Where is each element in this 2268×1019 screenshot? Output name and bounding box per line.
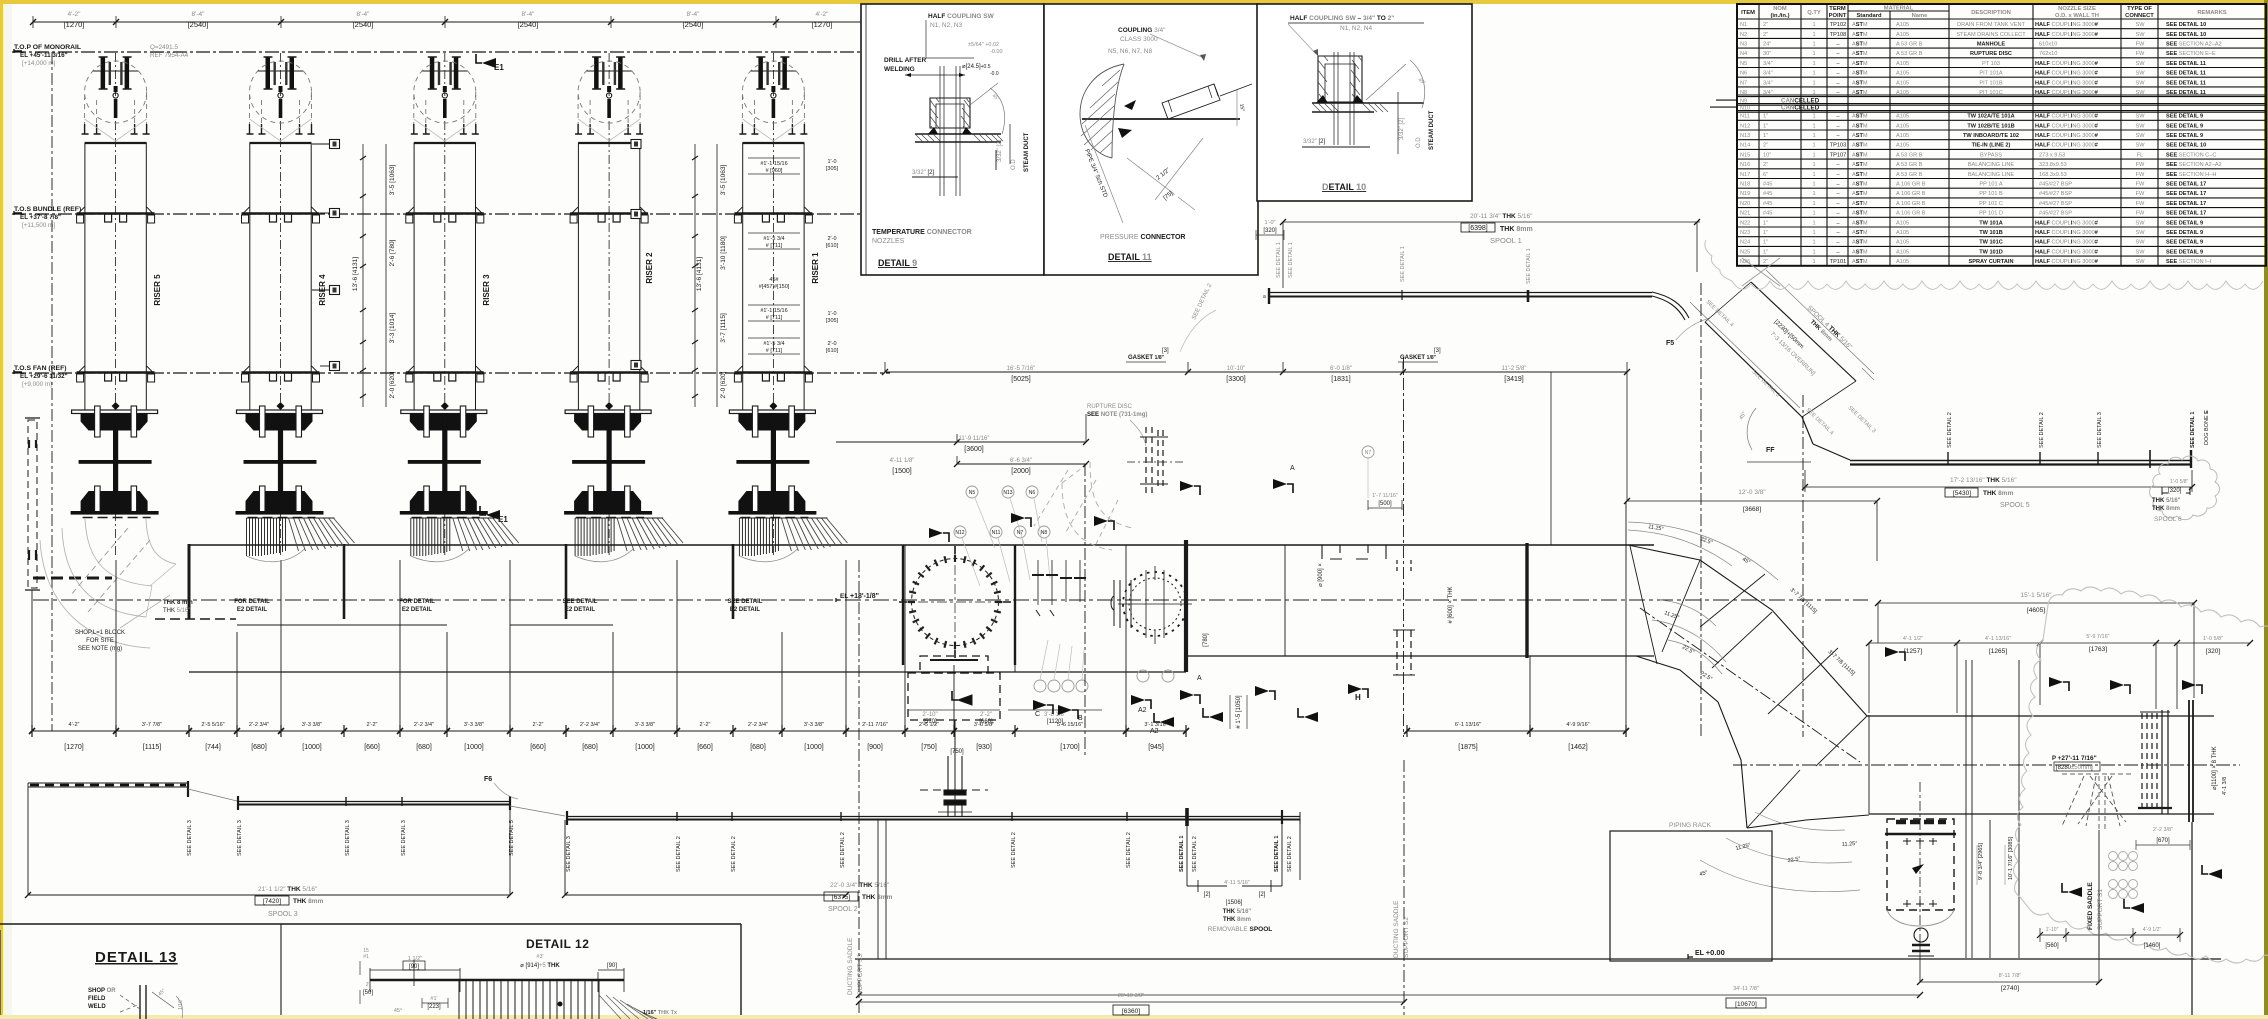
svg-text:2'-0: 2'-0	[828, 341, 837, 347]
svg-text:A 106 GR B: A 106 GR B	[1896, 182, 1926, 188]
svg-text:3/4": 3/4"	[1763, 80, 1773, 86]
svg-text:THK 8mm: THK 8mm	[293, 898, 324, 905]
svg-text:[680]: [680]	[750, 744, 766, 751]
svg-text:SW: SW	[2135, 123, 2145, 129]
detail 12 drawing	[370, 960, 657, 1019]
svg-text:SPOOL 3: SPOOL 3	[268, 911, 298, 918]
svg-text:24": 24"	[1763, 42, 1771, 48]
svg-text:[1462]: [1462]	[1568, 744, 1588, 751]
svg-text:45°: 45°	[394, 1008, 402, 1014]
svg-text:A2: A2	[1138, 707, 1147, 714]
svg-text:3/32" [2]: 3/32" [2]	[1399, 118, 1405, 140]
section labels	[1035, 465, 1361, 735]
svg-text:PIPING RACK: PIPING RACK	[1669, 822, 1712, 829]
centerline vertical 1085	[1084, 464, 1086, 758]
thk labels left	[163, 600, 193, 614]
manhole sub dimensions	[908, 710, 1102, 755]
svg-text:ASTM: ASTM	[1852, 162, 1868, 168]
svg-text:N13: N13	[1740, 133, 1750, 139]
svg-text:O.D. x WALL TH: O.D. x WALL TH	[2055, 13, 2099, 19]
svg-text:SW: SW	[2135, 80, 2145, 86]
svg-text:4'-9 9/16": 4'-9 9/16"	[1566, 722, 1589, 728]
spool 2 bar	[566, 808, 1300, 826]
svg-text:B: B	[1078, 715, 1083, 722]
svg-text:[1000]: [1000]	[302, 744, 322, 751]
saddle bracket on duct	[1322, 545, 1386, 559]
svg-text:#45/#27 BSP: #45/#27 BSP	[2039, 191, 2072, 197]
svg-text:FW: FW	[2136, 191, 2145, 197]
removable spool labels	[1187, 824, 1282, 892]
svg-text:4'-9 1/2": 4'-9 1/2"	[2143, 927, 2162, 933]
chain labels	[64, 744, 1588, 751]
svg-text:N10: N10	[1740, 105, 1750, 111]
dim 670	[2136, 827, 2190, 850]
svg-text:A105: A105	[1896, 61, 1909, 67]
svg-text:[2540]: [2540]	[188, 20, 209, 29]
svg-text:[305]: [305]	[826, 166, 839, 172]
vessel bottom fitting	[1908, 928, 1934, 956]
svg-text:TP101: TP101	[1830, 259, 1846, 265]
svg-text:22'-0 3/4" THK 5/16": 22'-0 3/4" THK 5/16"	[830, 882, 890, 889]
svg-text:PIT 101A: PIT 101A	[1979, 71, 2002, 77]
svg-text:[1265]: [1265]	[1989, 648, 2007, 655]
detail 9 header text	[884, 13, 1003, 77]
svg-text:SEE DETAIL 2: SEE DETAIL 2	[2039, 412, 2045, 448]
svg-text:# [711]: # [711]	[766, 348, 783, 354]
svg-text:SEE DETAIL 2: SEE DETAIL 2	[1947, 412, 1953, 448]
svg-text:1: 1	[1812, 220, 1815, 226]
N7 circle right	[1362, 446, 1374, 498]
duct verticals with chain extensions	[32, 501, 1626, 731]
svg-text:[50]: [50]	[363, 990, 373, 996]
svg-text:SEE DETAIL 10: SEE DETAIL 10	[2166, 143, 2206, 149]
dim 900 vertical	[1318, 563, 1324, 587]
svg-text:# 1'-5 [1050]: # 1'-5 [1050]	[1236, 695, 1242, 729]
svg-text:SW: SW	[2135, 240, 2145, 246]
svg-text:HALF COUPLING SW – 3/4" TO 2": HALF COUPLING SW – 3/4" TO 2"	[1290, 15, 1394, 22]
manhole drop fitting	[938, 756, 972, 816]
svg-text:MATERIAL: MATERIAL	[1884, 6, 1914, 12]
svg-text:SUPPORT S1: SUPPORT S1	[2097, 889, 2104, 930]
svg-text:SEE SECTION C–C: SEE SECTION C–C	[2166, 152, 2216, 158]
svg-text:2'-2 3/4": 2'-2 3/4"	[414, 722, 434, 728]
svg-text:1: 1	[1812, 80, 1815, 86]
svg-text:4'-2": 4'-2"	[69, 722, 80, 728]
svg-text:SEE DETAIL 9: SEE DETAIL 9	[2166, 240, 2203, 246]
svg-text:a: a	[1263, 294, 1266, 300]
svg-text:4'-1 3/8: 4'-1 3/8	[2222, 777, 2228, 795]
chain labels imperial	[69, 722, 1590, 728]
svg-text:# [711]: # [711]	[766, 243, 783, 249]
svg-text:HALF COUPLING 3000#: HALF COUPLING 3000#	[2035, 133, 2099, 139]
svg-text:11'-9 11/16": 11'-9 11/16"	[958, 436, 989, 442]
svg-text:ASTM: ASTM	[1852, 211, 1868, 217]
svg-text:1: 1	[1812, 191, 1815, 197]
svg-text:SEE DETAIL 2: SEE DETAIL 2	[840, 832, 846, 868]
lower duct dim labels	[1903, 634, 2223, 655]
bottom dim 2740	[1917, 930, 2102, 985]
svg-text:[930]: [930]	[976, 744, 992, 751]
svg-text:N7: N7	[1017, 530, 1024, 536]
svg-text:SEE DETAIL 1: SEE DETAIL 1	[2190, 412, 2196, 448]
svg-text:[660]: [660]	[979, 719, 993, 725]
svg-text:#45: #45	[1763, 201, 1772, 207]
svg-text:#45: #45	[1763, 191, 1772, 197]
svg-text:[744]: [744]	[205, 744, 221, 751]
svg-text:ASTM: ASTM	[1852, 249, 1868, 255]
detail 13 title	[95, 949, 178, 966]
svg-text:SEE DETAIL 9: SEE DETAIL 9	[2166, 249, 2203, 255]
svg-text:N20: N20	[1740, 201, 1750, 207]
spool 3 tick labels	[187, 820, 515, 856]
svg-text:A 106 GR B: A 106 GR B	[1896, 201, 1926, 207]
svg-text:P +27'-11 7/16": P +27'-11 7/16"	[2052, 755, 2097, 762]
elevation line EL t.o.s bundle	[12, 213, 860, 215]
svg-text:THK 8 mm: THK 8 mm	[163, 600, 193, 606]
detail 13/12 panel top border	[0, 924, 741, 1015]
rupture disc note	[1087, 404, 1147, 446]
svg-text:CONNECT: CONNECT	[2125, 13, 2154, 19]
svg-text:SEE DETAIL 2: SEE DETAIL 2	[676, 836, 682, 872]
svg-text:DETAIL 13: DETAIL 13	[95, 949, 178, 966]
svg-text:A105: A105	[1896, 230, 1909, 236]
svg-text:DETAIL 11: DETAIL 11	[1108, 252, 1152, 262]
spool 6 labels	[2152, 479, 2190, 523]
svg-text:O.D: O.D	[1011, 159, 1017, 170]
svg-text:2'-11 7/16": 2'-11 7/16"	[862, 722, 888, 728]
spool 1 left end labels	[1256, 220, 1532, 300]
svg-text:ASTM: ASTM	[1852, 71, 1868, 77]
svg-text:15'-1 5/16": 15'-1 5/16"	[2020, 592, 2052, 599]
svg-text:[320]: [320]	[2168, 488, 2182, 494]
riser 3 tower	[400, 53, 488, 558]
svg-text:PP 101 B: PP 101 B	[1979, 191, 2003, 197]
svg-text:N15: N15	[1740, 152, 1750, 158]
dim 6360 label	[1113, 993, 1149, 1015]
svg-text:2'-10": 2'-10"	[922, 712, 937, 718]
spool 1 pipe	[1269, 288, 1689, 320]
riser 1 tower	[728, 53, 816, 558]
svg-text:#1'-5 3/4: #1'-5 3/4	[763, 341, 784, 347]
svg-text:2'-2": 2'-2"	[367, 722, 378, 728]
svg-text:2'-0: 2'-0	[828, 236, 837, 242]
svg-text:2'-2 3/4": 2'-2 3/4"	[249, 722, 269, 728]
spool 5 tick labels	[1947, 410, 2210, 448]
svg-text:[3668]: [3668]	[1743, 506, 1761, 513]
svg-text:A 53 GR B: A 53 GR B	[1896, 172, 1923, 178]
svg-text:[5430]: [5430]	[1953, 490, 1971, 497]
svg-text:DOG BONE E: DOG BONE E	[2204, 410, 2210, 445]
svg-text:A105: A105	[1896, 114, 1909, 120]
svg-text:1: 1	[1812, 71, 1815, 77]
EL 0.00 ground line	[855, 948, 2221, 959]
svg-text:SEE DETAIL 9: SEE DETAIL 9	[2166, 133, 2203, 139]
svg-text:N2: N2	[1740, 32, 1747, 38]
svg-text:TYPE OF: TYPE OF	[2127, 6, 2152, 12]
ducting saddle S3 label	[847, 937, 864, 995]
svg-text:1: 1	[1812, 230, 1815, 236]
svg-text:[6375]: [6375]	[832, 894, 850, 901]
svg-text:[680]: [680]	[251, 744, 267, 751]
riser 2 label	[645, 252, 654, 284]
svg-text:NOZZLES: NOZZLES	[872, 238, 905, 245]
svg-text:STEAM DUCT: STEAM DUCT	[1429, 110, 1435, 150]
detail 10 title	[1322, 182, 1366, 192]
svg-text:[2]: [2]	[1259, 892, 1266, 898]
riser 5 label	[153, 274, 162, 306]
svg-text:[3300]: [3300]	[1226, 376, 1246, 383]
svg-text:FW: FW	[2136, 162, 2145, 168]
svg-text:N18: N18	[1740, 182, 1750, 188]
svg-text:3/4": 3/4"	[1763, 71, 1773, 77]
support tent dashed	[2062, 776, 2126, 830]
lower duct bottom line	[1869, 813, 2214, 815]
riser 4 label	[318, 274, 327, 306]
svg-text:SEE DETAIL 2: SEE DETAIL 2	[1126, 832, 1132, 868]
svg-text:# [711]: # [711]	[766, 315, 783, 321]
svg-text:[1875]: [1875]	[1458, 744, 1478, 751]
svg-text:16'-5 7/16": 16'-5 7/16"	[1007, 366, 1036, 372]
svg-text:SEE DETAIL 3: SEE DETAIL 3	[401, 820, 407, 856]
svg-text:COUPLING 3/4": COUPLING 3/4"	[1118, 27, 1166, 34]
svg-text:2'-5 5/16": 2'-5 5/16"	[201, 722, 224, 728]
svg-text:2'-0 [620]: 2'-0 [620]	[389, 371, 396, 398]
svg-text:FW: FW	[2136, 51, 2145, 57]
H support dashed columns	[1393, 560, 1415, 675]
svg-text:323.8x9.53: 323.8x9.53	[2039, 162, 2067, 168]
svg-text:SEE NOTE (mg): SEE NOTE (mg)	[78, 646, 122, 652]
svg-text:SEE DETAIL 1: SEE DETAIL 1	[1526, 248, 1532, 284]
svg-text:ASTM: ASTM	[1852, 90, 1868, 96]
svg-text:REMARKS: REMARKS	[2197, 10, 2226, 16]
svg-text:2'-2": 2'-2"	[700, 722, 711, 728]
svg-text:1: 1	[1812, 90, 1815, 96]
svg-text:RISER 1: RISER 1	[811, 252, 820, 284]
duct internal line	[237, 624, 613, 626]
svg-text:1: 1	[1812, 172, 1815, 178]
svg-text:SEE DETAIL 1: SEE DETAIL 1	[1288, 242, 1294, 278]
detail 12 title	[526, 937, 589, 951]
svg-text:SEE DETAIL 17: SEE DETAIL 17	[2166, 191, 2206, 197]
svg-text:#1'-5 3/4: #1'-5 3/4	[763, 236, 784, 242]
detail 12 labels	[363, 948, 678, 1016]
svg-text:SEE DETAIL 1: SEE DETAIL 1	[1276, 242, 1282, 278]
riser 1 internal nozzle callouts	[748, 158, 800, 354]
svg-text:WELDING: WELDING	[884, 66, 915, 73]
lower duct end plate	[2189, 700, 2193, 822]
svg-text:10": 10"	[1763, 152, 1771, 158]
svg-text:10'-1 7/16" [3085]: 10'-1 7/16" [3085]	[2008, 836, 2014, 880]
svg-text:1": 1"	[1763, 249, 1768, 255]
svg-text:N5: N5	[1740, 61, 1747, 67]
svg-text:⌀ [914]+5 THK: ⌀ [914]+5 THK	[520, 963, 560, 969]
svg-text:[320]: [320]	[1263, 228, 1277, 234]
svg-text:[750]: [750]	[921, 744, 937, 751]
svg-text:ASTM: ASTM	[1852, 259, 1868, 265]
svg-text:SHOP OR: SHOP OR	[88, 988, 116, 994]
svg-text:1": 1"	[1763, 220, 1768, 226]
svg-text:GASKET 1/8": GASKET 1/8"	[1400, 355, 1437, 361]
svg-text:SUPPORT S3: SUPPORT S3	[857, 954, 864, 995]
spool 3 extent label	[255, 886, 324, 918]
node squares right of riser 4	[312, 140, 340, 371]
piping rack outline	[1610, 822, 1772, 961]
svg-text:762x10: 762x10	[2039, 51, 2057, 57]
svg-text:TW 101B: TW 101B	[1979, 230, 2003, 236]
svg-text:±5/64" +0.02: ±5/64" +0.02	[968, 42, 999, 48]
svg-text:NOM: NOM	[1773, 6, 1787, 12]
svg-text:[320]: [320]	[2206, 648, 2221, 655]
svg-text:Q=2491.5: Q=2491.5	[150, 44, 178, 51]
dim 4605	[1875, 600, 2197, 698]
svg-text:[2540]: [2540]	[518, 20, 539, 29]
svg-text:N17: N17	[1740, 172, 1750, 178]
svg-text:Standard: Standard	[1856, 13, 1882, 19]
svg-text:3'-3 3/8": 3'-3 3/8"	[464, 722, 484, 728]
svg-text:# [600] × THK: # [600] × THK	[1448, 586, 1454, 623]
svg-text:3'-3 3/8": 3'-3 3/8"	[804, 722, 824, 728]
svg-text:T.O.S FAN (REF): T.O.S FAN (REF)	[14, 365, 67, 372]
bottom dim 10670	[856, 992, 1923, 998]
svg-text:F6: F6	[484, 776, 492, 783]
svg-text:[2540]: [2540]	[353, 20, 374, 29]
svg-text:A 53 GR B: A 53 GR B	[1896, 162, 1923, 168]
svg-text:-0.00: -0.00	[990, 49, 1003, 55]
svg-text:3'-3 [1014]: 3'-3 [1014]	[389, 313, 396, 344]
svg-text:1": 1"	[1763, 240, 1768, 246]
svg-text:SEE DETAIL 11: SEE DETAIL 11	[2166, 90, 2206, 96]
dim 10670 label	[1726, 986, 1766, 1008]
svg-text:2": 2"	[366, 982, 371, 988]
svg-text:SEE DETAIL 17: SEE DETAIL 17	[2166, 201, 2206, 207]
svg-text:RUPTURE DISC: RUPTURE DISC	[1970, 51, 2012, 57]
detail 11 header	[1108, 27, 1206, 61]
svg-text:1: 1	[1812, 240, 1815, 246]
main duct bottom line right	[1186, 655, 1654, 657]
detail 9 small labels	[912, 93, 1030, 176]
elbow centerline	[1640, 608, 1860, 762]
svg-text:DETAIL 9: DETAIL 9	[878, 258, 917, 268]
svg-text:[90]: [90]	[607, 963, 617, 969]
svg-text:SEE DETAIL 9: SEE DETAIL 9	[2166, 220, 2203, 226]
svg-text:[1763]: [1763]	[2089, 646, 2107, 653]
svg-text:N19: N19	[1740, 191, 1750, 197]
spool 2 tick labels	[566, 832, 1293, 872]
svg-text:2": 2"	[1763, 22, 1768, 28]
spool 3 extent bracket	[25, 783, 513, 898]
svg-text:N5, N6, N7, N8: N5, N6, N7, N8	[1108, 48, 1152, 55]
svg-text:SEE DETAIL 3: SEE DETAIL 3	[237, 820, 243, 856]
svg-text:FW: FW	[2136, 211, 2145, 217]
svg-text:[780]: [780]	[1203, 633, 1209, 647]
dim ladder between riser 2 and 1	[692, 144, 717, 407]
svg-text:8'-4": 8'-4"	[522, 11, 536, 18]
svg-text:T.O.S BUNDLE (REF): T.O.S BUNDLE (REF)	[14, 206, 81, 213]
right vertical to page bottom	[2191, 822, 2193, 1015]
svg-text:#45/#27 BSP: #45/#27 BSP	[2039, 182, 2072, 188]
main duct bottom line left	[189, 671, 1186, 673]
svg-text:[660]: [660]	[697, 744, 713, 751]
svg-text:1'-10": 1'-10"	[2046, 927, 2059, 933]
svg-text:N1: N1	[1740, 22, 1747, 28]
svg-text:2'-2": 2'-2"	[980, 712, 992, 718]
svg-text:3/4": 3/4"	[1763, 90, 1773, 96]
nozzle schedule table frame	[1710, 4, 2266, 266]
svg-text:8'-4": 8'-4"	[357, 11, 371, 18]
mitered elbow outer edge	[1628, 545, 1869, 828]
svg-text:SEE DETAIL 17: SEE DETAIL 17	[2166, 182, 2206, 188]
see detail labels under fans	[234, 599, 763, 613]
svg-text:SW: SW	[2135, 114, 2145, 120]
svg-text:A105: A105	[1896, 22, 1909, 28]
yellow page border bottom	[0, 1015, 2268, 1019]
svg-text:[560]: [560]	[2045, 943, 2059, 949]
dim 4605 label	[2020, 592, 2052, 614]
saddle S2 centerline	[1403, 760, 1405, 1015]
svg-text:HALF COUPLING 3000#: HALF COUPLING 3000#	[2035, 230, 2099, 236]
svg-text:N1, N2, N3: N1, N2, N3	[930, 22, 963, 29]
svg-text:SW: SW	[2135, 220, 2145, 226]
svg-text:-0.0: -0.0	[990, 71, 999, 77]
svg-text:[500]: [500]	[1378, 501, 1392, 507]
svg-text:13'-6 [4131]: 13'-6 [4131]	[352, 257, 359, 291]
svg-text:THK 5/16": THK 5/16"	[1223, 909, 1252, 915]
svg-text:SEE DETAIL 3: SEE DETAIL 3	[187, 820, 193, 856]
riser 1 right side callouts	[826, 159, 839, 354]
svg-text:[680]: [680]	[582, 744, 598, 751]
svg-text:FIELD: FIELD	[88, 996, 106, 1002]
svg-text:SEE DETAIL: SEE DETAIL	[728, 599, 763, 605]
svg-text:FIXED SADDLE: FIXED SADDLE	[2087, 882, 2094, 930]
svg-text:N8: N8	[1740, 90, 1747, 96]
svg-text:1: 1	[1812, 133, 1815, 139]
svg-text:ASTM: ASTM	[1852, 240, 1868, 246]
EL label block 3	[14, 365, 68, 388]
svg-text:A105: A105	[1896, 240, 1909, 246]
svg-text:3'-5 [1063]: 3'-5 [1063]	[389, 165, 396, 196]
dog bone label	[2212, 746, 2228, 795]
detail 11 title	[1100, 234, 1185, 262]
svg-text:SEE DETAIL 2: SEE DETAIL 2	[731, 836, 737, 872]
svg-text:SEE DETAIL 10: SEE DETAIL 10	[2166, 32, 2206, 38]
svg-text:E1: E1	[494, 63, 504, 72]
svg-text:SEE DETAIL 2: SEE DETAIL 2	[1011, 832, 1017, 868]
svg-text:N5: N5	[969, 490, 976, 496]
svg-text:1'-0 5/8": 1'-0 5/8"	[2170, 479, 2189, 485]
svg-text:TP102: TP102	[1830, 22, 1846, 28]
svg-text:N21: N21	[1740, 211, 1750, 217]
svg-text:N9: N9	[1740, 98, 1747, 104]
sample dims rotated	[1977, 836, 2014, 885]
svg-text:TW 101D: TW 101D	[1979, 249, 2003, 255]
svg-text:1'-0: 1'-0	[828, 159, 837, 165]
svg-text:#1: #1	[363, 954, 369, 960]
svg-text:DETAIL 10: DETAIL 10	[1322, 182, 1366, 192]
dim 560 1460 row	[2037, 928, 2183, 942]
svg-text:[1500]: [1500]	[892, 468, 912, 475]
svg-text:CANCELLED: CANCELLED	[1781, 97, 1820, 104]
svg-text:[1257]: [1257]	[1904, 648, 1922, 655]
svg-text:[2000]: [2000]	[1011, 468, 1031, 475]
svg-text:HALF COUPLING 3000#: HALF COUPLING 3000#	[2035, 143, 2099, 149]
svg-text:A105: A105	[1896, 80, 1909, 86]
svg-text:TW 101A: TW 101A	[1979, 220, 2003, 226]
detail 11 small labels	[1083, 103, 1245, 201]
svg-text:2'-2 3/8": 2'-2 3/8"	[2153, 827, 2173, 833]
svg-text:RISER 3: RISER 3	[482, 274, 491, 306]
svg-text:ASTM: ASTM	[1852, 22, 1868, 28]
svg-text:N25: N25	[1740, 249, 1750, 255]
